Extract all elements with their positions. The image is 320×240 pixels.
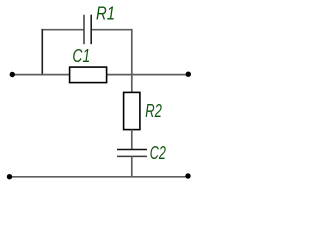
node terminal middle-left — [10, 72, 15, 77]
wire bottom horizontal — [10, 176, 189, 178]
resistor R2 — [124, 92, 140, 129]
wire C2 to bottom wire — [131, 156, 133, 176]
svg-text:C1: C1 — [72, 46, 90, 66]
capacitor C2 — [117, 150, 147, 157]
wire top-left segment — [42, 29, 83, 31]
svg-text:R1: R1 — [96, 3, 115, 23]
node terminal bottom-right — [185, 173, 190, 178]
resistor C1 — [70, 67, 107, 83]
svg-text:C2: C2 — [150, 143, 166, 163]
node terminal middle-right — [186, 72, 191, 77]
capacitor R1 — [84, 15, 91, 45]
wire middle horizontal — [12, 74, 188, 76]
svg-text:R2: R2 — [145, 101, 162, 121]
wire right vertical (middle wire to R2) — [131, 75, 133, 93]
node terminal bottom-left — [7, 174, 12, 179]
wire R2 to C2 — [131, 130, 133, 150]
wire top-right segment with corner down to middle wire — [92, 30, 132, 75]
wire left vertical — [41, 29, 43, 75]
